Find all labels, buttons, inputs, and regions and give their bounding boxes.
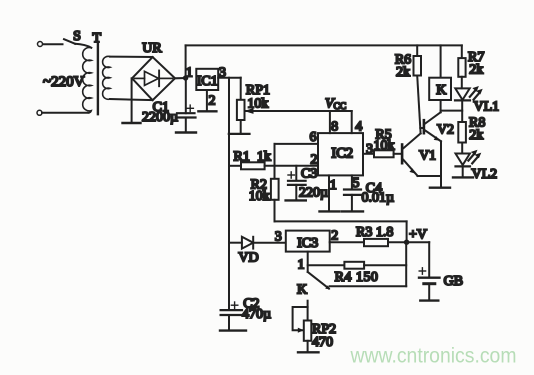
svg-text:K: K	[436, 83, 446, 98]
svg-text:CC: CC	[334, 102, 347, 112]
svg-text:3: 3	[275, 230, 282, 245]
ground	[453, 176, 473, 178]
resistor R8	[458, 122, 466, 143]
battery GB	[407, 241, 430, 243]
capacitor C3	[295, 166, 297, 180]
svg-text:www.cntronics.com: www.cntronics.com	[350, 345, 517, 368]
node 1	[183, 75, 188, 80]
svg-text:0.01µ: 0.01µ	[362, 191, 395, 206]
svg-text:V1: V1	[419, 149, 436, 164]
wire bottom rail to +V	[275, 220, 407, 222]
wire IC1 pin3	[218, 77, 241, 79]
resistor R2	[271, 179, 279, 200]
wire bridge left corner down	[131, 78, 133, 122]
svg-text:2k: 2k	[469, 128, 483, 143]
svg-text:1: 1	[298, 258, 305, 273]
terminal top-left	[38, 42, 43, 47]
svg-text:R1 1k: R1 1k	[234, 150, 271, 165]
ground	[123, 122, 141, 124]
resistor R4	[344, 262, 364, 269]
svg-text:IC1: IC1	[197, 74, 218, 89]
resistor R1	[229, 165, 241, 167]
svg-text:S: S	[73, 29, 81, 44]
svg-text:~220V: ~220V	[43, 74, 85, 90]
LED VL1	[455, 88, 469, 100]
svg-text:1: 1	[186, 66, 193, 81]
svg-text:K: K	[297, 283, 307, 298]
svg-text:C3: C3	[301, 167, 317, 182]
svg-text:3: 3	[366, 142, 373, 157]
svg-text:VD: VD	[238, 251, 258, 266]
svg-text:GB: GB	[444, 274, 463, 289]
svg-text:1: 1	[330, 178, 337, 193]
wire bridge right to node 1	[175, 77, 186, 79]
wire secondary bottom	[110, 99, 153, 100]
switch S	[64, 39, 75, 44]
svg-text:2200µ: 2200µ	[142, 110, 178, 125]
svg-text:T: T	[93, 31, 102, 46]
wire	[43, 43, 63, 45]
node junction / wire to pin6	[274, 144, 276, 179]
relay K	[440, 45, 442, 77]
svg-text:+V: +V	[409, 228, 427, 243]
transistor V1	[401, 143, 404, 164]
resistor R3	[364, 239, 388, 246]
transformer T primary	[83, 47, 92, 112]
svg-text:3: 3	[219, 66, 226, 81]
svg-text:2k: 2k	[469, 63, 483, 78]
capacitor C1	[185, 78, 187, 113]
wire pin 8	[329, 111, 331, 133]
wire IC3 pin2	[330, 241, 364, 243]
transistor V2	[423, 119, 426, 135]
potentiometer RP1	[240, 78, 242, 100]
bridge rectifier UR	[132, 57, 175, 100]
wire	[75, 44, 91, 48]
svg-text:10k: 10k	[374, 138, 395, 153]
capacitor C2	[221, 309, 242, 311]
wire pin 3	[363, 153, 374, 155]
svg-text:470: 470	[312, 335, 333, 350]
wire tap to LED chain	[441, 110, 463, 112]
wire V1 emitter	[418, 175, 442, 177]
svg-text:R4 150: R4 150	[335, 270, 379, 285]
resistor R7	[461, 45, 463, 58]
capacitor C4	[344, 188, 361, 190]
resistor R6	[416, 45, 418, 56]
ground	[342, 210, 363, 212]
wire top rail	[186, 44, 462, 46]
LED VL2	[456, 154, 470, 166]
transformer T secondary	[103, 56, 110, 99]
wire RP1 wiper / VCC line	[246, 110, 352, 112]
ground	[286, 199, 306, 201]
regulator IC1	[196, 69, 218, 90]
ground	[176, 131, 196, 133]
op-amp IC2	[318, 133, 363, 175]
ground	[198, 110, 216, 112]
ground	[320, 210, 340, 212]
svg-text:IC3: IC3	[297, 236, 318, 251]
ground	[220, 329, 246, 331]
ground	[430, 186, 450, 188]
node +V	[404, 240, 409, 245]
svg-text:4: 4	[355, 120, 362, 135]
wire IC3 pin1	[307, 252, 309, 272]
wire stub to V2 base	[420, 127, 422, 129]
switch K contact	[308, 272, 329, 289]
svg-text:2: 2	[311, 153, 318, 168]
wire	[42, 112, 89, 114]
svg-text:2: 2	[331, 229, 338, 244]
potentiometer RP2	[307, 301, 309, 321]
svg-text:2: 2	[209, 94, 216, 109]
wire node1 up to top rail	[185, 45, 187, 78]
svg-text:IC2: IC2	[331, 146, 353, 162]
ground	[298, 351, 319, 353]
resistor R5	[374, 150, 394, 157]
svg-text:UR: UR	[142, 41, 162, 56]
wire pin 5 down	[351, 175, 353, 189]
wire secondary top to bridge	[110, 56, 153, 58]
svg-text:470µ: 470µ	[242, 307, 271, 322]
terminal bottom-left	[37, 110, 42, 115]
svg-text:VL2: VL2	[472, 167, 498, 182]
wire IC1 pin2 down	[206, 90, 208, 111]
diode VD	[229, 242, 242, 244]
svg-text:2k: 2k	[396, 65, 410, 80]
regulator IC3	[286, 231, 330, 252]
wire main vertical line	[228, 78, 230, 310]
svg-text:8: 8	[331, 120, 338, 135]
svg-text:220µ: 220µ	[299, 186, 328, 201]
transformer core	[97, 44, 99, 114]
svg-text:R3 1.8: R3 1.8	[356, 225, 393, 240]
svg-text:V2: V2	[437, 123, 454, 138]
wire pin 1 down	[328, 175, 330, 210]
ground	[420, 299, 438, 301]
svg-text:VL1: VL1	[474, 100, 500, 115]
wire pin 4	[351, 111, 353, 133]
svg-text:10k: 10k	[249, 189, 270, 204]
svg-text:6: 6	[310, 130, 317, 145]
